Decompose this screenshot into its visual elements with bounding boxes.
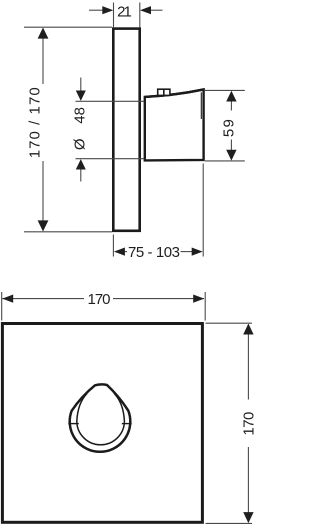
dimension 75-103 (wall to handle front), extension lines bbox=[113, 164, 203, 257]
handle top slanted edge bbox=[145, 89, 204, 97]
svg-text:75 - 103: 75 - 103 bbox=[128, 244, 180, 261]
dimension 170/170 arrowheads bbox=[38, 28, 49, 39]
svg-text:21: 21 bbox=[117, 4, 132, 21]
dimension 170 width arrowheads bbox=[2, 295, 13, 303]
dimension 170 height arrowheads bbox=[243, 324, 253, 335]
svg-text:170 / 170: 170 / 170 bbox=[27, 87, 44, 158]
dimension 170 height (front view), extension lines bbox=[206, 323, 253, 523]
square escutcheon plate 170x170 bbox=[2, 324, 202, 523]
dimension 170/170 (plate height), extension lines bbox=[24, 27, 112, 232]
button on handle top bbox=[158, 89, 170, 95]
handle body (side profile) bbox=[145, 89, 204, 160]
svg-text:48: 48 bbox=[72, 107, 89, 124]
knob parting tick left bbox=[68, 423, 79, 425]
knob parting tick right bbox=[122, 423, 132, 425]
wall plate (side profile 21 thick) bbox=[113, 29, 139, 231]
svg-text:170: 170 bbox=[241, 412, 258, 436]
dimension 21 arrowheads bbox=[102, 6, 113, 14]
dimension 170 width (front view), extension lines bbox=[2, 292, 206, 321]
dimension 75-103 arrowheads bbox=[114, 248, 125, 256]
dimension Ø48 (handle base), extension lines bbox=[76, 78, 145, 182]
knob grip outline (teardrop) bbox=[70, 384, 131, 451]
svg-text:170: 170 bbox=[88, 291, 111, 308]
handle front chamfer line bbox=[200, 92, 202, 119]
svg-text:Ø: Ø bbox=[72, 138, 89, 150]
dimension 21 (plate thickness), extension lines bbox=[89, 3, 163, 28]
dimension 59 arrowheads bbox=[226, 91, 236, 102]
knob base ring (inner outline) bbox=[77, 394, 125, 445]
svg-text:59: 59 bbox=[221, 119, 238, 137]
dimension Ø48 arrowheads bbox=[76, 91, 86, 101]
dimension 59 (handle height), extension lines bbox=[205, 90, 245, 160]
